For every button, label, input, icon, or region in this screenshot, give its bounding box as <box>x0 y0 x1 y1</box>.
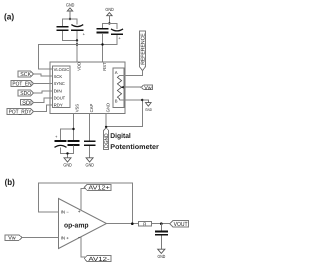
node: junction dot G1 <box>69 18 71 20</box>
port flag DGND <box>104 128 110 149</box>
wire: terminal B net <box>106 100 142 127</box>
svg-text:op-amp: op-amp <box>64 221 89 230</box>
wire: top bar cap pair 2 <box>103 23 118 28</box>
wire POT_EN <box>33 83 50 85</box>
svg-text:−: − <box>78 236 81 241</box>
svg-text:GND: GND <box>86 163 95 168</box>
wire: resistor to vout <box>152 223 171 225</box>
port flag Vw input <box>5 235 22 242</box>
svg-text:CAP: CAP <box>89 103 94 112</box>
svg-text:GND: GND <box>158 254 166 259</box>
capacitor C2 (polarized) <box>71 25 85 37</box>
ground under C7 <box>86 158 95 168</box>
svg-text:Digital: Digital <box>110 132 131 140</box>
svg-text:DIN: DIN <box>54 89 62 94</box>
svg-text:SYNC: SYNC <box>54 81 65 86</box>
svg-text:POT_EN: POT_EN <box>12 82 31 88</box>
port flag SDO <box>18 90 33 97</box>
wire: V- stub <box>81 237 86 257</box>
capacitor C4 (polarized) <box>111 29 123 41</box>
resistor R1 <box>138 222 151 227</box>
svg-text:SCK: SCK <box>20 72 31 78</box>
svg-text:GND: GND <box>106 103 111 112</box>
svg-text:Vw: Vw <box>8 236 15 242</box>
svg-text:VDD: VDD <box>77 62 82 71</box>
wiper arrow <box>123 86 141 88</box>
svg-text:IN −: IN − <box>61 209 70 214</box>
ground at B (arrow) <box>142 100 152 112</box>
wire: VDD drop to rail and chip <box>76 41 78 63</box>
svg-text:+: + <box>118 36 121 41</box>
wire: output <box>107 223 139 225</box>
ground G2 (top second) <box>105 7 114 23</box>
wire: VSS caps bottom bar <box>61 146 74 158</box>
svg-text:+: + <box>83 31 86 36</box>
port flag Vw <box>141 85 152 91</box>
IC U1 digital potentiometer body <box>50 62 125 114</box>
wire: VSS pin down <box>61 114 74 141</box>
svg-text:RDY: RDY <box>54 102 63 107</box>
svg-text:Potentiometer: Potentiometer <box>110 143 159 151</box>
wire: bottom bar cap pair 1 <box>63 31 78 41</box>
svg-text:Vw: Vw <box>144 85 151 91</box>
svg-text:SCK: SCK <box>54 74 63 79</box>
svg-text:B: B <box>115 99 118 104</box>
node: dot feedback junction <box>131 222 134 225</box>
op-amp U2 triangle <box>59 199 107 249</box>
capacitor C5 (polarized) <box>54 134 66 148</box>
wire POT_RDY <box>33 105 50 112</box>
wire SDO <box>33 91 50 93</box>
svg-text:DGND: DGND <box>104 133 110 148</box>
resistor element zigzag <box>117 76 121 101</box>
wire: terminal A to reference <box>120 71 143 76</box>
svg-text:SDO: SDO <box>20 91 31 97</box>
svg-text:(a): (a) <box>4 11 14 21</box>
svg-text:GND: GND <box>145 107 152 112</box>
svg-text:RST: RST <box>102 62 107 71</box>
svg-text:+: + <box>78 210 81 215</box>
svg-text:IN +: IN + <box>61 236 70 241</box>
wire: feedback loop <box>38 183 132 224</box>
pin names <box>54 67 70 108</box>
node: dot VSS gnd <box>66 152 68 154</box>
capacitor C3 (ceramic) <box>97 29 109 33</box>
port flag REFERENCE <box>139 31 146 71</box>
svg-text:SDI: SDI <box>22 100 32 106</box>
node: dot at B junction <box>141 99 143 101</box>
port flag SDI <box>20 100 33 107</box>
svg-text:REFERENCE: REFERENCE <box>141 33 147 65</box>
wire: Vw to IN+ <box>22 237 58 239</box>
node: dot DGND junction <box>105 126 107 128</box>
svg-text:DOUT: DOUT <box>54 95 66 100</box>
node: dot on rail at RST <box>101 43 103 45</box>
svg-text:POT_RDY: POT_RDY <box>9 110 32 116</box>
wire: top bar cap pair 1 <box>63 19 78 26</box>
wire: supply rail <box>38 33 117 69</box>
port flag AV12- <box>84 255 111 262</box>
wire: CAP pin down <box>89 114 91 141</box>
svg-text:GND: GND <box>66 3 75 8</box>
pin stubs left <box>50 69 53 105</box>
svg-text:A: A <box>115 70 118 75</box>
port flag AV12+ <box>84 184 111 191</box>
wire: chip GND pin down <box>105 114 107 127</box>
node: junction dot G2 <box>108 22 110 24</box>
ground G1 (top left) <box>66 3 75 20</box>
node: dot pair1 bottom <box>76 39 78 41</box>
pin name box <box>53 66 70 108</box>
svg-text:AV12+: AV12+ <box>88 185 110 192</box>
svg-text:GND: GND <box>105 7 114 12</box>
node: dot VSS bar <box>72 128 74 130</box>
port flag POT_EN <box>11 81 34 88</box>
capacitor C1 (0.1uF ceramic) <box>57 27 69 31</box>
node: dot vout junction <box>160 222 163 225</box>
wire SCK <box>33 74 50 76</box>
capacitor C7 <box>84 141 96 145</box>
potentiometer RDAC box <box>113 68 124 108</box>
wire: V+ stub <box>81 189 86 211</box>
svg-text:(b): (b) <box>5 177 15 187</box>
svg-text:VSS: VSS <box>75 104 80 113</box>
svg-text:+: + <box>55 134 58 139</box>
capacitor C6 (ceramic) <box>67 141 79 145</box>
capacitor C8 <box>155 224 168 250</box>
port flag SCK <box>18 71 33 78</box>
ground under VSS caps <box>63 158 72 168</box>
ground under C8 <box>158 249 166 259</box>
svg-text:VOUT: VOUT <box>174 221 188 228</box>
svg-text:GND: GND <box>63 163 72 168</box>
wire SDI <box>33 98 50 103</box>
svg-text:VLOGIC: VLOGIC <box>54 67 70 72</box>
node: dot on rail at VDD <box>76 43 78 45</box>
svg-text:AV12-: AV12- <box>88 256 109 263</box>
port flag VOUT <box>170 221 189 228</box>
svg-text:R: R <box>143 221 146 226</box>
port flag POT_RDY <box>7 109 33 116</box>
wire: C7 to ground <box>89 146 91 158</box>
